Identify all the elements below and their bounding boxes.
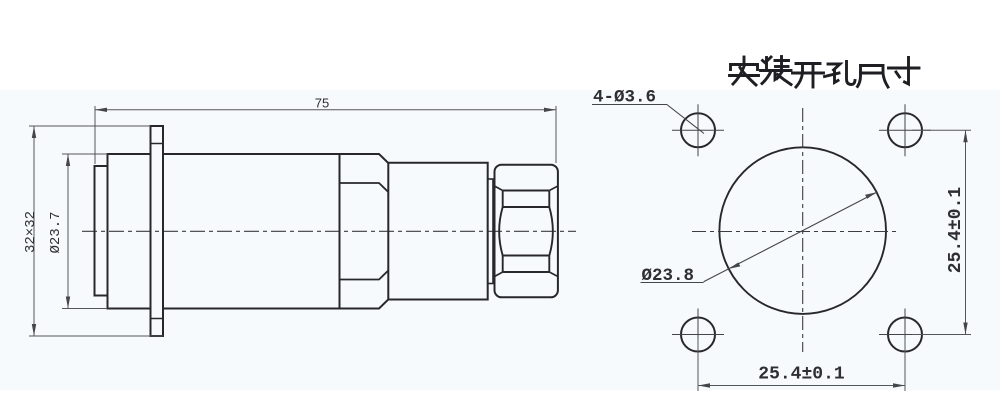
- dim 32x32: extension lines: [29, 125, 151, 127]
- title char Kai: [793, 64, 824, 88]
- nut hex corner arcs: [499, 207, 553, 256]
- title char Cun: [889, 58, 920, 85]
- label 4-3.6 leader: [592, 105, 704, 134]
- dim bottom 25.4: ext lines: [697, 338, 699, 391]
- svg-text:25.4±0.1: 25.4±0.1: [758, 365, 845, 385]
- front body: [108, 154, 151, 309]
- hole bottom-left: [681, 318, 715, 352]
- svg-text:32×32: 32×32: [23, 211, 39, 253]
- barrel: [388, 163, 487, 300]
- title char Zhuang: [761, 57, 792, 85]
- label underline 23.8: [641, 282, 704, 284]
- diameter leader line: [704, 192, 877, 281]
- svg-text:25.4±0.1: 25.4±0.1: [946, 187, 966, 274]
- front cap: [95, 166, 108, 296]
- title char Chi: [858, 66, 889, 88]
- nut waist top: [503, 191, 550, 208]
- dim 75: arrows: [95, 108, 107, 112]
- dim 23.7: extension lines: [62, 153, 108, 155]
- dim 32x32: dimension line: [33, 126, 35, 336]
- hole bottom-right: [888, 318, 922, 352]
- dim right 25.4: ext lines: [912, 129, 971, 131]
- centerline axis: [82, 230, 576, 232]
- flange corner line top: [151, 143, 164, 145]
- hex facet top: [340, 183, 389, 192]
- hole top-right: [888, 113, 922, 147]
- svg-text:75: 75: [315, 96, 329, 111]
- main body: [163, 154, 340, 309]
- flange corner line bottom: [151, 318, 164, 320]
- title char An: [730, 57, 759, 85]
- light blue panel background: [0, 90, 1000, 390]
- vertical centerline: [802, 108, 804, 352]
- coupling nut body: [495, 165, 558, 298]
- title char Kong: [825, 62, 856, 85]
- hex nut section: [340, 154, 389, 309]
- washer ring: [488, 179, 493, 284]
- big circle: [719, 147, 886, 314]
- svg-text:4-Ø3.6: 4-Ø3.6: [593, 88, 656, 108]
- hex facet bottom: [340, 271, 389, 280]
- horizontal centerline: [692, 231, 900, 233]
- svg-text:Ø23.8: Ø23.8: [642, 266, 695, 286]
- dim 75: dimension line: [95, 109, 556, 111]
- hole top-left: [681, 113, 715, 147]
- dim 23.7: dimension line: [67, 154, 69, 309]
- nut waist bottom: [503, 256, 550, 273]
- flange: [151, 126, 164, 336]
- dim 75: extension lines: [94, 106, 96, 164]
- svg-text:Ø23.7: Ø23.7: [48, 211, 64, 253]
